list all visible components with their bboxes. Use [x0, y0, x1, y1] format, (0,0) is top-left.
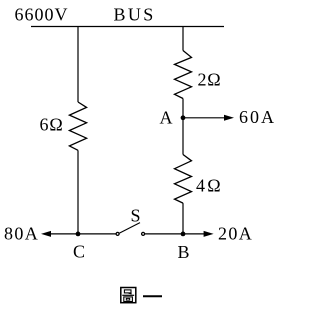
glyph 圖 middle bar: [122, 294, 134, 296]
svg-text:BUS: BUS: [114, 5, 156, 25]
svg-text:60A: 60A: [239, 107, 276, 127]
wire left branch bottom: [77, 150, 79, 234]
wire 2Ω to node A: [182, 99, 184, 155]
glyph 圖 top mouth tail: [128, 293, 132, 294]
wire switch to node B: [145, 233, 183, 235]
wire 60A arrow: [183, 117, 225, 119]
svg-text:4Ω: 4Ω: [196, 176, 223, 196]
glyph 圖 outer box: [121, 288, 136, 303]
glyph 圖 inner bottom box: [124, 297, 133, 302]
resistor 6Ω: [69, 102, 86, 150]
wire node C to switch: [78, 233, 116, 235]
switch S blade: [119, 223, 140, 234]
svg-text:20A: 20A: [218, 224, 253, 244]
switch S right terminal: [142, 232, 145, 235]
svg-text:S: S: [131, 206, 141, 226]
wire left branch top: [77, 27, 79, 103]
resistor 2Ω: [175, 51, 192, 99]
wire bus horizontal: [31, 26, 224, 28]
svg-text:6600V: 6600V: [15, 5, 69, 25]
wire 80A arrow: [41, 231, 51, 237]
svg-text:C: C: [73, 242, 85, 262]
node B junction dot: [181, 232, 186, 237]
node C junction dot: [76, 232, 81, 237]
glyph 圖 bottom inner mark: [126, 298, 129, 300]
switch S left terminal: [116, 232, 119, 235]
glyph 圖 inner top mouth: [124, 290, 131, 293]
wire right branch top: [182, 27, 184, 51]
svg-text:80A: 80A: [4, 224, 39, 244]
svg-text:A: A: [160, 108, 173, 128]
svg-text:6Ω: 6Ω: [40, 115, 64, 135]
svg-text:2Ω: 2Ω: [198, 70, 222, 90]
glyph 一: [143, 295, 162, 297]
wire 4Ω to node B: [182, 203, 184, 234]
caption 圖一 (drawn glyphs): [121, 288, 162, 303]
svg-text:B: B: [178, 242, 190, 262]
resistor 4Ω: [175, 155, 192, 204]
wire 20A arrow: [183, 233, 205, 235]
node A junction dot: [181, 115, 186, 120]
